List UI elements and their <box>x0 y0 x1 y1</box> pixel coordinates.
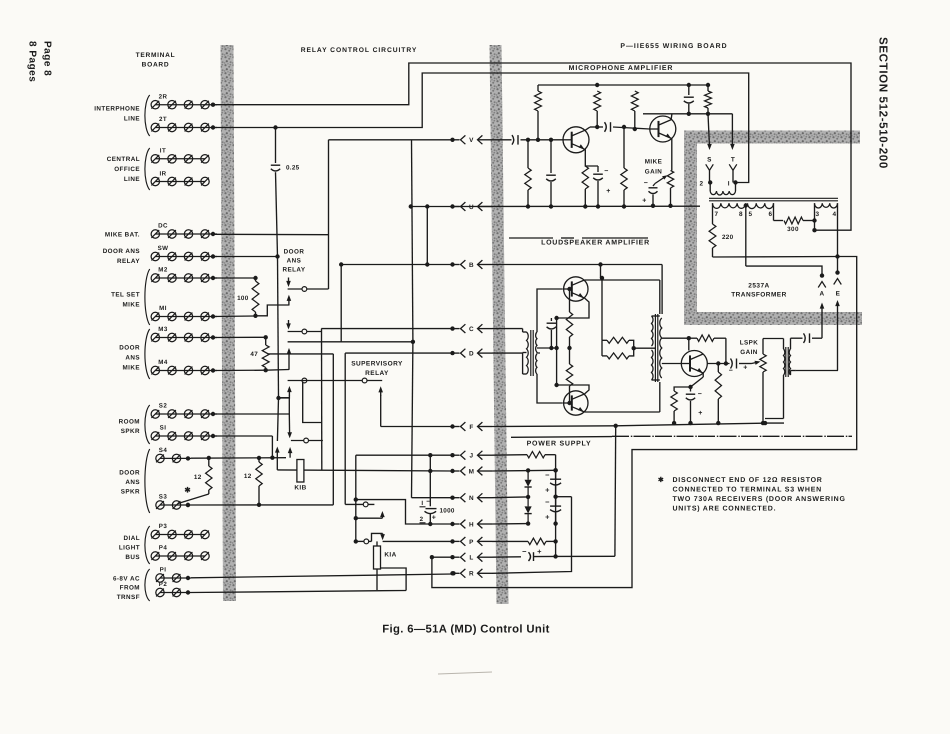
svg-text:300: 300 <box>787 226 799 233</box>
svg-text:✱: ✱ <box>658 476 664 484</box>
svg-text:2537A: 2537A <box>748 283 769 290</box>
svg-text:P—IIE655 WIRING BOARD: P—IIE655 WIRING BOARD <box>620 43 727 50</box>
svg-text:OFFICE: OFFICE <box>114 166 140 173</box>
svg-text:MIKE: MIKE <box>122 365 140 372</box>
svg-text:12: 12 <box>244 473 252 480</box>
svg-text:DC: DC <box>158 223 168 230</box>
svg-text:LINE: LINE <box>124 176 140 183</box>
svg-text:TRANSFORMER: TRANSFORMER <box>731 292 787 299</box>
svg-text:C: C <box>469 326 474 333</box>
svg-text:N: N <box>469 495 474 502</box>
svg-text:GAIN: GAIN <box>645 169 663 176</box>
svg-text:J: J <box>469 453 473 460</box>
svg-text:6-8V AC: 6-8V AC <box>113 576 140 583</box>
svg-text:S: S <box>707 157 712 164</box>
svg-text:FROM: FROM <box>120 585 140 592</box>
svg-text:PI: PI <box>160 567 167 574</box>
svg-text:V: V <box>469 137 474 144</box>
svg-text:DISCONNECT END OF 12Ω RESI: DISCONNECT END OF 12Ω RESISTOR <box>673 477 823 484</box>
svg-text:M3: M3 <box>158 326 168 333</box>
svg-text:RELAY: RELAY <box>117 258 140 265</box>
svg-text:SI: SI <box>160 425 167 432</box>
svg-text:IT: IT <box>160 148 166 155</box>
svg-text:+: + <box>545 513 550 522</box>
svg-text:TWO 730A RECEIVERS (DOOR A: TWO 730A RECEIVERS (DOOR ANSWERING <box>673 495 846 503</box>
svg-text:CONNECTED TO TERMINAL S3 W: CONNECTED TO TERMINAL S3 WHEN <box>673 487 822 494</box>
svg-text:I: I <box>728 181 730 188</box>
svg-text:MI: MI <box>159 305 167 312</box>
svg-text:LSPK: LSPK <box>740 340 759 347</box>
svg-text:T: T <box>731 157 735 164</box>
svg-text:RELAY: RELAY <box>282 267 305 274</box>
svg-text:IR: IR <box>159 171 166 178</box>
svg-text:LOUDSPEAKER AMPLIFIER: LOUDSPEAKER AMPLIFIER <box>541 240 650 247</box>
svg-text:I: I <box>421 500 423 507</box>
svg-text:E: E <box>836 291 841 298</box>
svg-text:ROOM: ROOM <box>119 419 140 426</box>
svg-text:Fig. 6—51A (MD) Control Un: Fig. 6—51A (MD) Control Unit <box>382 624 550 636</box>
svg-text:0.25: 0.25 <box>286 165 300 172</box>
svg-text:+: + <box>545 486 550 495</box>
svg-text:−: − <box>426 499 431 506</box>
svg-text:F: F <box>469 424 473 431</box>
svg-text:+: + <box>537 547 542 556</box>
svg-text:DOOR: DOOR <box>119 345 140 352</box>
svg-text:P2: P2 <box>159 581 168 588</box>
svg-text:UNITS) ARE CONNECTED.: UNITS) ARE CONNECTED. <box>673 505 777 513</box>
svg-text:SW: SW <box>158 245 169 252</box>
svg-text:12: 12 <box>194 474 202 481</box>
svg-text:S4: S4 <box>159 447 168 454</box>
svg-text:GAIN: GAIN <box>740 349 758 356</box>
svg-text:RELAY CONTROL CIRCUITRY: RELAY CONTROL CIRCUITRY <box>301 47 418 54</box>
svg-text:DOOR ANS: DOOR ANS <box>103 248 140 255</box>
svg-text:RELAY: RELAY <box>365 370 389 377</box>
svg-text:100: 100 <box>237 295 249 302</box>
svg-text:A: A <box>819 291 824 298</box>
svg-text:M: M <box>469 468 475 475</box>
svg-text:M4: M4 <box>158 359 168 366</box>
svg-text:SECTION 512-510-200: SECTION 512-510-200 <box>877 37 890 169</box>
svg-text:DOOR: DOOR <box>119 470 140 477</box>
svg-text:LINE: LINE <box>124 116 140 123</box>
svg-text:2: 2 <box>699 181 703 188</box>
svg-text:2R: 2R <box>159 94 168 101</box>
svg-text:TRNSF: TRNSF <box>117 594 140 601</box>
svg-text:+: + <box>642 198 647 205</box>
svg-text:SPKR: SPKR <box>121 428 140 435</box>
svg-text:MIKE: MIKE <box>645 159 663 166</box>
svg-text:+: + <box>698 410 703 417</box>
svg-text:POWER SUPPLY: POWER SUPPLY <box>527 441 592 448</box>
svg-text:KIB: KIB <box>294 485 306 492</box>
svg-text:INTERPHONE: INTERPHONE <box>94 106 140 113</box>
svg-text:TEL SET: TEL SET <box>111 292 140 299</box>
svg-text:−: − <box>644 180 649 187</box>
svg-text:R: R <box>469 571 474 578</box>
svg-text:BOARD: BOARD <box>142 62 170 69</box>
svg-text:D: D <box>469 351 474 358</box>
svg-text:+: + <box>432 515 437 522</box>
svg-text:Page 8: Page 8 <box>42 41 53 76</box>
svg-text:−: − <box>729 368 734 375</box>
svg-text:+: + <box>743 365 748 372</box>
svg-text:B: B <box>469 262 474 269</box>
svg-text:BUS: BUS <box>125 554 140 561</box>
svg-text:H: H <box>469 521 474 528</box>
svg-text:✱: ✱ <box>184 486 191 495</box>
svg-text:−: − <box>522 547 527 556</box>
svg-text:6: 6 <box>768 211 772 218</box>
svg-text:P3: P3 <box>159 523 168 530</box>
svg-text:L: L <box>469 555 473 562</box>
svg-text:U: U <box>469 204 474 211</box>
svg-text:7: 7 <box>714 211 718 218</box>
svg-text:CENTRAL: CENTRAL <box>107 156 140 163</box>
svg-text:ANS: ANS <box>125 355 140 362</box>
svg-text:8: 8 <box>739 211 743 218</box>
svg-text:ANS: ANS <box>125 479 140 486</box>
svg-text:47: 47 <box>250 351 258 358</box>
svg-text:−: − <box>545 471 550 480</box>
svg-text:MICROPHONE AMPLIFIER: MICROPHONE AMPLIFIER <box>569 65 674 72</box>
svg-text:P: P <box>469 539 474 546</box>
svg-text:MIKE BAT.: MIKE BAT. <box>105 232 140 239</box>
svg-text:ANS: ANS <box>287 258 302 265</box>
svg-text:−: − <box>545 498 550 507</box>
svg-text:1000: 1000 <box>440 508 455 515</box>
svg-text:SPKR: SPKR <box>121 489 140 496</box>
svg-text:DOOR: DOOR <box>284 249 305 256</box>
svg-text:M2: M2 <box>158 267 168 274</box>
svg-text:2: 2 <box>420 516 424 523</box>
svg-text:220: 220 <box>722 234 734 241</box>
svg-text:LIGHT: LIGHT <box>119 545 140 552</box>
svg-text:2T: 2T <box>159 116 167 123</box>
svg-text:4: 4 <box>832 211 836 218</box>
svg-text:5: 5 <box>748 211 752 218</box>
svg-text:S2: S2 <box>159 403 168 410</box>
svg-text:8 Pages: 8 Pages <box>27 41 38 82</box>
svg-text:S3: S3 <box>159 494 168 501</box>
svg-text:+: + <box>606 188 611 195</box>
svg-text:−: − <box>604 168 609 175</box>
svg-text:3: 3 <box>815 211 819 218</box>
svg-text:TERMINAL: TERMINAL <box>136 52 176 59</box>
svg-text:−: − <box>698 391 703 398</box>
svg-text:DIAL: DIAL <box>124 535 141 542</box>
svg-text:KIA: KIA <box>384 552 396 559</box>
svg-text:MIKE: MIKE <box>122 302 140 309</box>
svg-text:SUPERVISORY: SUPERVISORY <box>351 361 403 368</box>
svg-text:P4: P4 <box>159 545 168 552</box>
